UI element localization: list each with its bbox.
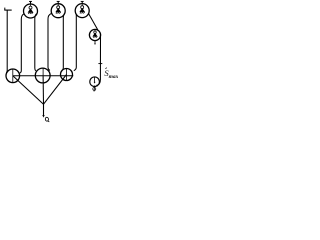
fixed pulley A [24, 4, 38, 18]
drum (winch) [90, 77, 100, 87]
fixed pulley C pivot symbol [80, 4, 85, 14]
wire rope L4 (movable pulley F to fixed pulley B) [48, 14, 51, 71]
fixed pulley C support [81, 1, 84, 3]
drum inner arrow [94, 77, 96, 82]
movable pulley G [61, 69, 73, 81]
load line with arrow Q [43, 104, 45, 116]
wire rope L5 (fixed pulley B to movable pulley G) [62, 13, 65, 70]
label Smax [104, 68, 118, 80]
wire rope diagonal (fixed pulley C to guide pulley D) [89, 14, 98, 30]
axle bar through movable pulleys [13, 75, 74, 77]
guide pulley D [89, 29, 100, 40]
wire rope L1 (anchor to movable pulley E) [5, 10, 8, 73]
link G to load point [44, 75, 67, 105]
fixed pulley C [75, 4, 89, 18]
wire rope L6 (movable pulley G to fixed pulley C) [74, 14, 77, 70]
wire rope right vertical (guide pulley D down to drum) [97, 35, 101, 85]
fixed pulley B [51, 4, 65, 18]
fixed pulley A pivot symbol [28, 4, 33, 14]
wire rope L2 (movable pulley E to fixed pulley A) [20, 14, 24, 73]
fixed pulley A support [29, 1, 32, 4]
svg-text:max: max [109, 74, 118, 80]
anchor (fixed rope end) top-left [4, 8, 11, 11]
link E to load point [13, 76, 44, 104]
movable pulley F axle cross [42, 68, 44, 75]
label Q [45, 117, 49, 122]
movable pulley G axle cross [66, 69, 68, 81]
movable pulley F [35, 68, 50, 83]
link F to load point [42, 76, 44, 105]
fixed pulley B pivot symbol [56, 4, 61, 14]
force Smax tail tick [98, 63, 102, 65]
movable pulley E [6, 69, 20, 83]
drum label phi [93, 85, 96, 91]
guide pulley D lower stub arrow [94, 41, 96, 44]
movable pulley E axle cross [12, 69, 14, 82]
wire rope L3 (fixed pulley A to movable pulley F) [35, 14, 37, 71]
guide pulley D pivot symbol [93, 30, 97, 38]
fixed pulley B support [57, 1, 60, 3]
rope end arrowhead at drum [96, 85, 98, 87]
